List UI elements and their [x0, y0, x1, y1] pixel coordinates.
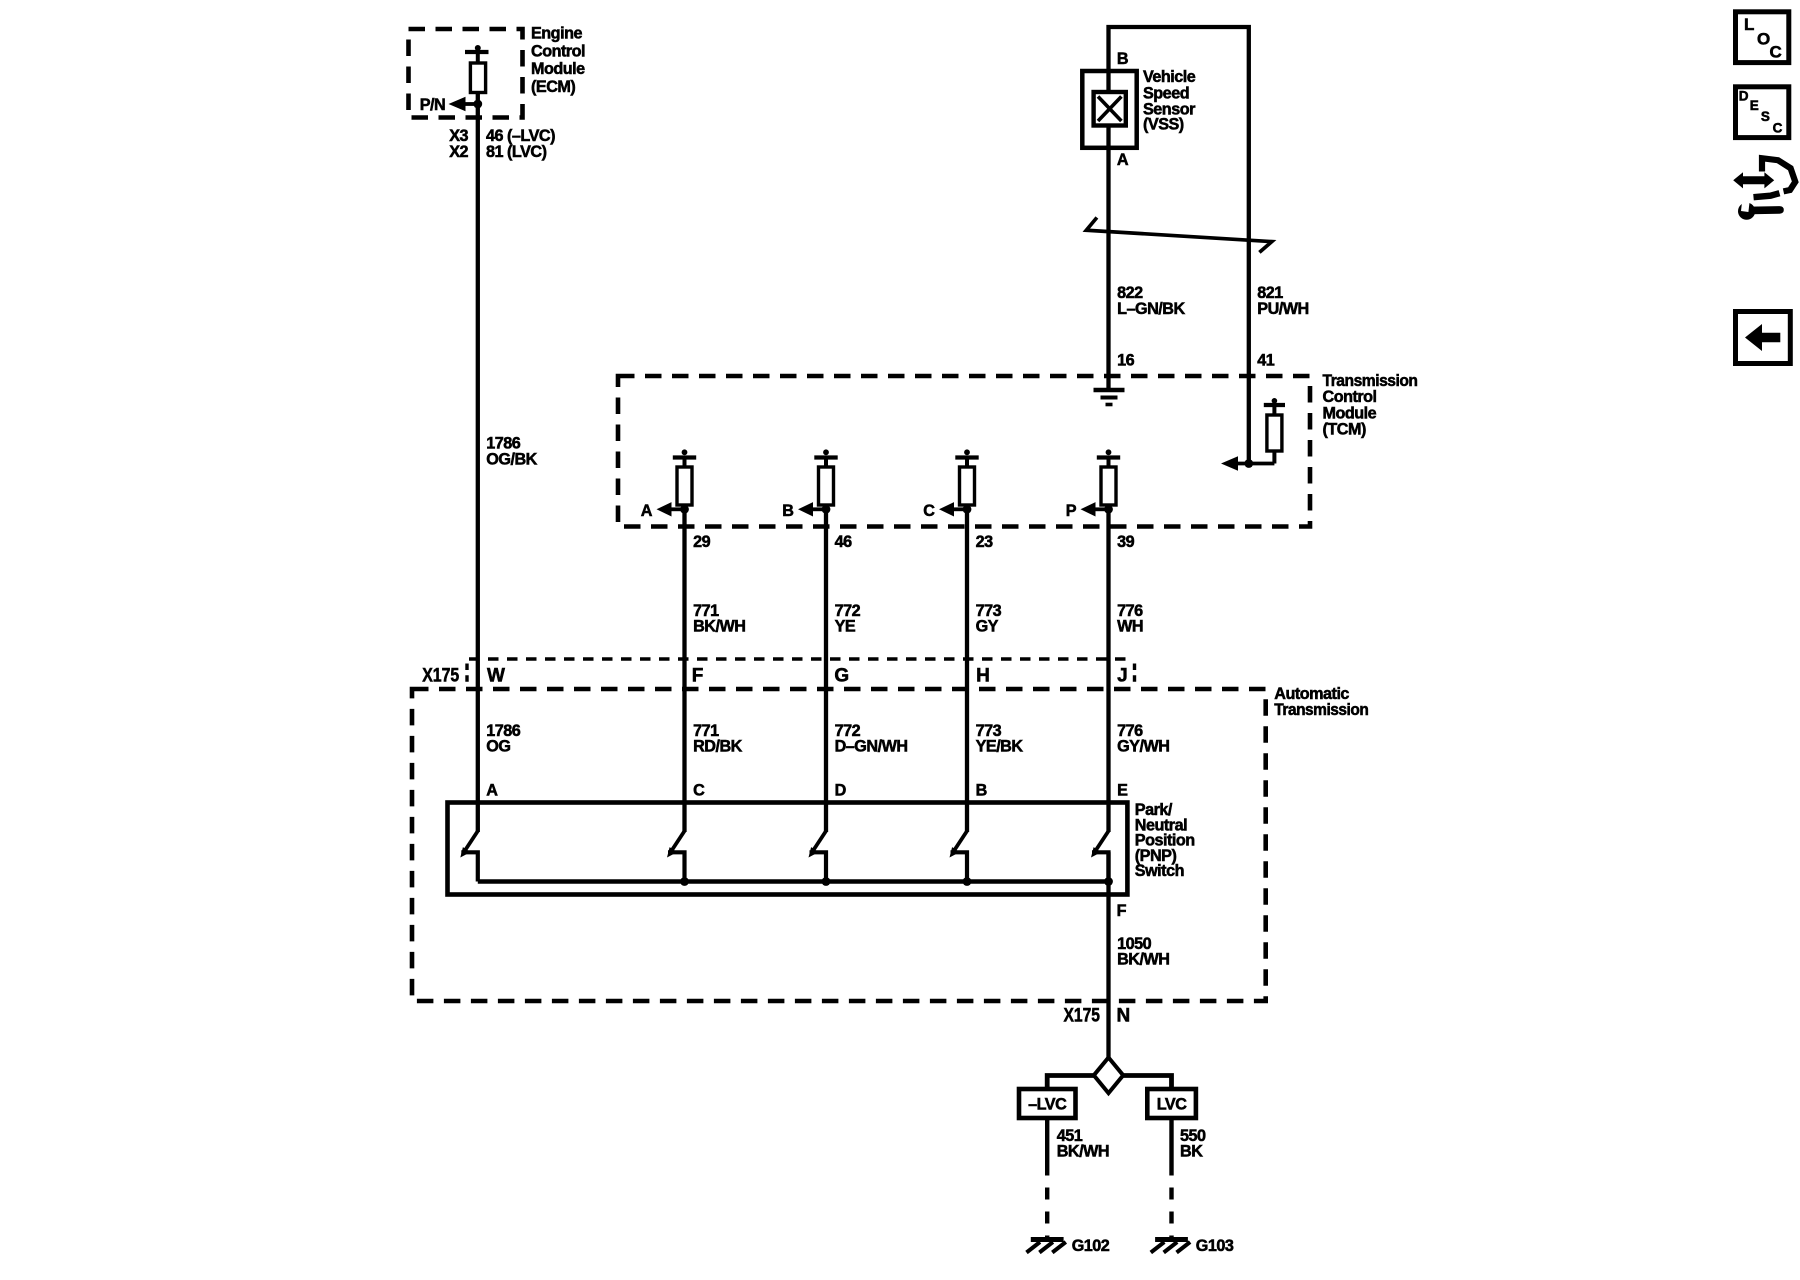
switch contact PNP position B [950, 803, 968, 882]
svg-text:BK/WH: BK/WH [1117, 951, 1169, 969]
resistor ECM internal (driver) [465, 45, 489, 93]
svg-text:P/N: P/N [420, 96, 446, 114]
svg-text:D: D [835, 781, 847, 799]
node ECM P/N junction [473, 100, 482, 109]
svg-text:G103: G103 [1196, 1237, 1234, 1255]
arrow TCM signal C [939, 502, 967, 516]
svg-text:YE/BK: YE/BK [976, 738, 1024, 756]
off-page break symbol across wires 822/821 [1086, 218, 1272, 253]
svg-text:L: L [1744, 15, 1754, 34]
wire VSS pin B loop to TCM pin 41 (circuit 821) [1109, 27, 1249, 464]
wire 451 BK/WH to G102 [1045, 1118, 1049, 1176]
arrow TCM signal A [657, 502, 685, 516]
svg-text:A: A [486, 781, 498, 799]
node bus junction D [822, 877, 831, 886]
svg-text:G102: G102 [1072, 1237, 1110, 1255]
connector X175 right bracket [1133, 664, 1136, 685]
svg-text:A: A [1117, 151, 1129, 169]
svg-text:E: E [1750, 98, 1759, 113]
PNP common bus wire [478, 879, 1109, 884]
svg-text:BK/WH: BK/WH [1057, 1143, 1109, 1161]
svg-text:81 (LVC): 81 (LVC) [486, 143, 547, 161]
resistor TCM pin C driver [955, 449, 978, 505]
node bus junction E [1104, 877, 1113, 886]
resistor TCM pin 41 pull-up [1236, 398, 1285, 464]
resistor TCM pin A driver [673, 449, 696, 505]
VSS sensor element (box with X) [1094, 92, 1126, 126]
connector box LVC [1147, 1089, 1196, 1118]
svg-text:E: E [1117, 781, 1128, 799]
wire TCM pin B down through X175 to PNP switch [824, 505, 828, 803]
node TCM pin P junction [1104, 505, 1113, 514]
connector X175 left bracket [465, 664, 468, 687]
splice S (diamond) [1094, 1058, 1123, 1094]
svg-text:C: C [1773, 121, 1783, 136]
svg-text:F: F [1117, 902, 1127, 920]
svg-text:GY/WH: GY/WH [1117, 738, 1169, 756]
svg-text:S: S [1761, 109, 1770, 124]
svg-text:D: D [1739, 89, 1749, 104]
svg-text:(VSS): (VSS) [1143, 116, 1184, 134]
ECM dashed box [409, 29, 523, 118]
node bus junction C [680, 877, 689, 886]
PNP switch box [448, 803, 1128, 895]
switch contact PNP position E [1091, 803, 1109, 882]
svg-text:A: A [641, 502, 653, 520]
svg-text:WH: WH [1117, 618, 1143, 636]
svg-text:D–GN/WH: D–GN/WH [835, 738, 908, 756]
svg-text:39: 39 [1117, 533, 1135, 551]
svg-text:BK/WH: BK/WH [693, 618, 745, 636]
arrow TCM signal B [798, 502, 826, 516]
arrow TCM input pin 41 [1221, 456, 1238, 470]
svg-text:H: H [976, 666, 990, 687]
svg-text:LVC: LVC [1157, 1096, 1187, 1114]
svg-text:(ECM): (ECM) [531, 78, 575, 96]
svg-text:X2: X2 [449, 143, 468, 161]
wire splice to -LVC and LVC [1047, 1076, 1094, 1090]
svg-text:J: J [1117, 666, 1128, 687]
icon back-arrow button [1736, 312, 1791, 364]
wire TCM pin P down through X175 to PNP switch [1106, 505, 1110, 803]
svg-text:Transmission: Transmission [1274, 701, 1368, 719]
svg-text:C: C [923, 502, 935, 520]
svg-text:Switch: Switch [1135, 862, 1184, 880]
icon related-info (arrows and wrench) [1733, 158, 1795, 220]
svg-text:W: W [487, 666, 505, 687]
node TCM pin A junction [680, 505, 689, 514]
svg-text:C: C [1770, 42, 1782, 61]
svg-text:Vehicle: Vehicle [1143, 68, 1196, 86]
svg-text:(TCM): (TCM) [1323, 421, 1366, 439]
wire ECM P/N output 1786 OG/BK, runs down to PNP switch pin A [476, 93, 480, 803]
svg-text:F: F [692, 666, 704, 687]
switch contact PNP position A [460, 803, 478, 882]
resistor TCM pin P driver [1097, 449, 1120, 505]
svg-text:G: G [834, 666, 849, 687]
svg-text:OG: OG [486, 738, 510, 756]
svg-text:X175: X175 [1064, 1006, 1101, 1027]
ground G102 [1027, 1240, 1066, 1253]
svg-text:C: C [693, 781, 705, 799]
connector X175 pass-through line [469, 657, 1133, 660]
svg-text:16: 16 [1117, 352, 1135, 370]
svg-text:OG/BK: OG/BK [486, 450, 537, 468]
node TCM pin C junction [963, 505, 972, 514]
svg-text:29: 29 [693, 533, 711, 551]
svg-text:B: B [976, 781, 987, 799]
wire TCM pin A down through X175 to PNP switch [682, 505, 686, 803]
svg-text:N: N [1117, 1006, 1131, 1027]
svg-text:RD/BK: RD/BK [693, 738, 743, 756]
svg-text:46: 46 [835, 533, 853, 551]
svg-text:23: 23 [976, 533, 994, 551]
icon LOC button [1736, 12, 1789, 63]
TCM dashed box [618, 376, 1310, 527]
wire 550 BK to G103 [1169, 1118, 1173, 1176]
connector box -LVC [1019, 1089, 1076, 1118]
node junction wire 821 / resistor [1244, 459, 1253, 468]
svg-text:YE: YE [835, 618, 856, 636]
ground G103 [1151, 1240, 1190, 1253]
svg-text:Engine: Engine [531, 25, 582, 43]
svg-text:Module: Module [531, 60, 585, 78]
svg-text:B: B [1117, 50, 1128, 68]
svg-text:PU/WH: PU/WH [1257, 300, 1308, 318]
VSS component box [1082, 71, 1136, 148]
wire VSS pin A to ground at TCM pin 16 (circuit 822) [1106, 71, 1110, 388]
svg-text:–LVC: –LVC [1028, 1096, 1067, 1114]
svg-text:BK: BK [1180, 1143, 1203, 1161]
ground inside TCM at pin 16 [1094, 390, 1125, 405]
arrow TCM signal P [1081, 502, 1109, 516]
wire PNP pin F circuit 1050 BK/WH down to splice [1106, 852, 1110, 1058]
wire TCM pin C down through X175 to PNP switch [965, 505, 969, 803]
node TCM pin B junction [822, 505, 831, 514]
switch contact PNP position C [667, 803, 685, 882]
svg-text:Control: Control [1323, 388, 1377, 406]
switch contact PNP position D [809, 803, 827, 882]
svg-text:L–GN/BK: L–GN/BK [1117, 300, 1185, 318]
svg-text:X175: X175 [422, 666, 459, 687]
svg-text:O: O [1757, 30, 1770, 49]
svg-text:41: 41 [1257, 352, 1275, 370]
svg-text:Control: Control [531, 42, 585, 60]
svg-text:B: B [782, 502, 793, 520]
resistor TCM pin B driver [814, 449, 837, 505]
svg-text:P: P [1066, 502, 1077, 520]
svg-text:GY: GY [976, 618, 999, 636]
P/N signal arrow [449, 97, 478, 111]
Automatic Transmission dashed box [412, 689, 1266, 1001]
icon DESC button [1736, 87, 1789, 138]
node bus junction B [963, 877, 972, 886]
